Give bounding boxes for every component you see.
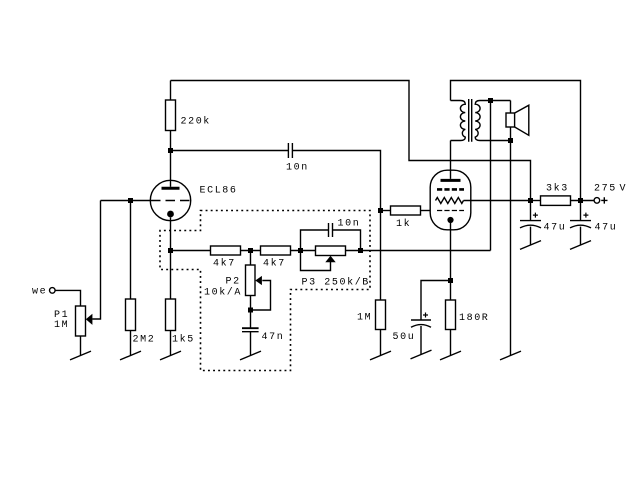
svg-text:3k3: 3k3	[546, 183, 569, 195]
svg-text:4k7: 4k7	[213, 258, 236, 270]
svg-text:1M: 1M	[54, 320, 69, 331]
svg-text:4k7: 4k7	[263, 258, 286, 270]
svg-text:180R: 180R	[459, 313, 489, 324]
svg-text:47n: 47n	[262, 332, 285, 343]
svg-text:220k: 220k	[181, 116, 211, 128]
svg-text:V: V	[620, 184, 628, 195]
svg-text:P2: P2	[226, 277, 241, 288]
svg-text:47u: 47u	[544, 223, 567, 234]
svg-text:10n: 10n	[338, 219, 361, 230]
svg-text:2M2: 2M2	[133, 335, 156, 346]
svg-text:P3 250k/B: P3 250k/B	[302, 277, 370, 289]
svg-text:we: we	[32, 287, 47, 298]
svg-text:1k5: 1k5	[172, 334, 195, 346]
svg-text:47u: 47u	[595, 223, 618, 234]
svg-text:ECL86: ECL86	[200, 186, 238, 197]
svg-text:50u: 50u	[393, 332, 416, 343]
svg-text:10k/A: 10k/A	[204, 287, 242, 299]
svg-text:1M: 1M	[357, 313, 372, 324]
svg-text:10n: 10n	[286, 163, 309, 174]
svg-text:1k: 1k	[396, 218, 411, 230]
svg-text:275: 275	[594, 184, 617, 195]
